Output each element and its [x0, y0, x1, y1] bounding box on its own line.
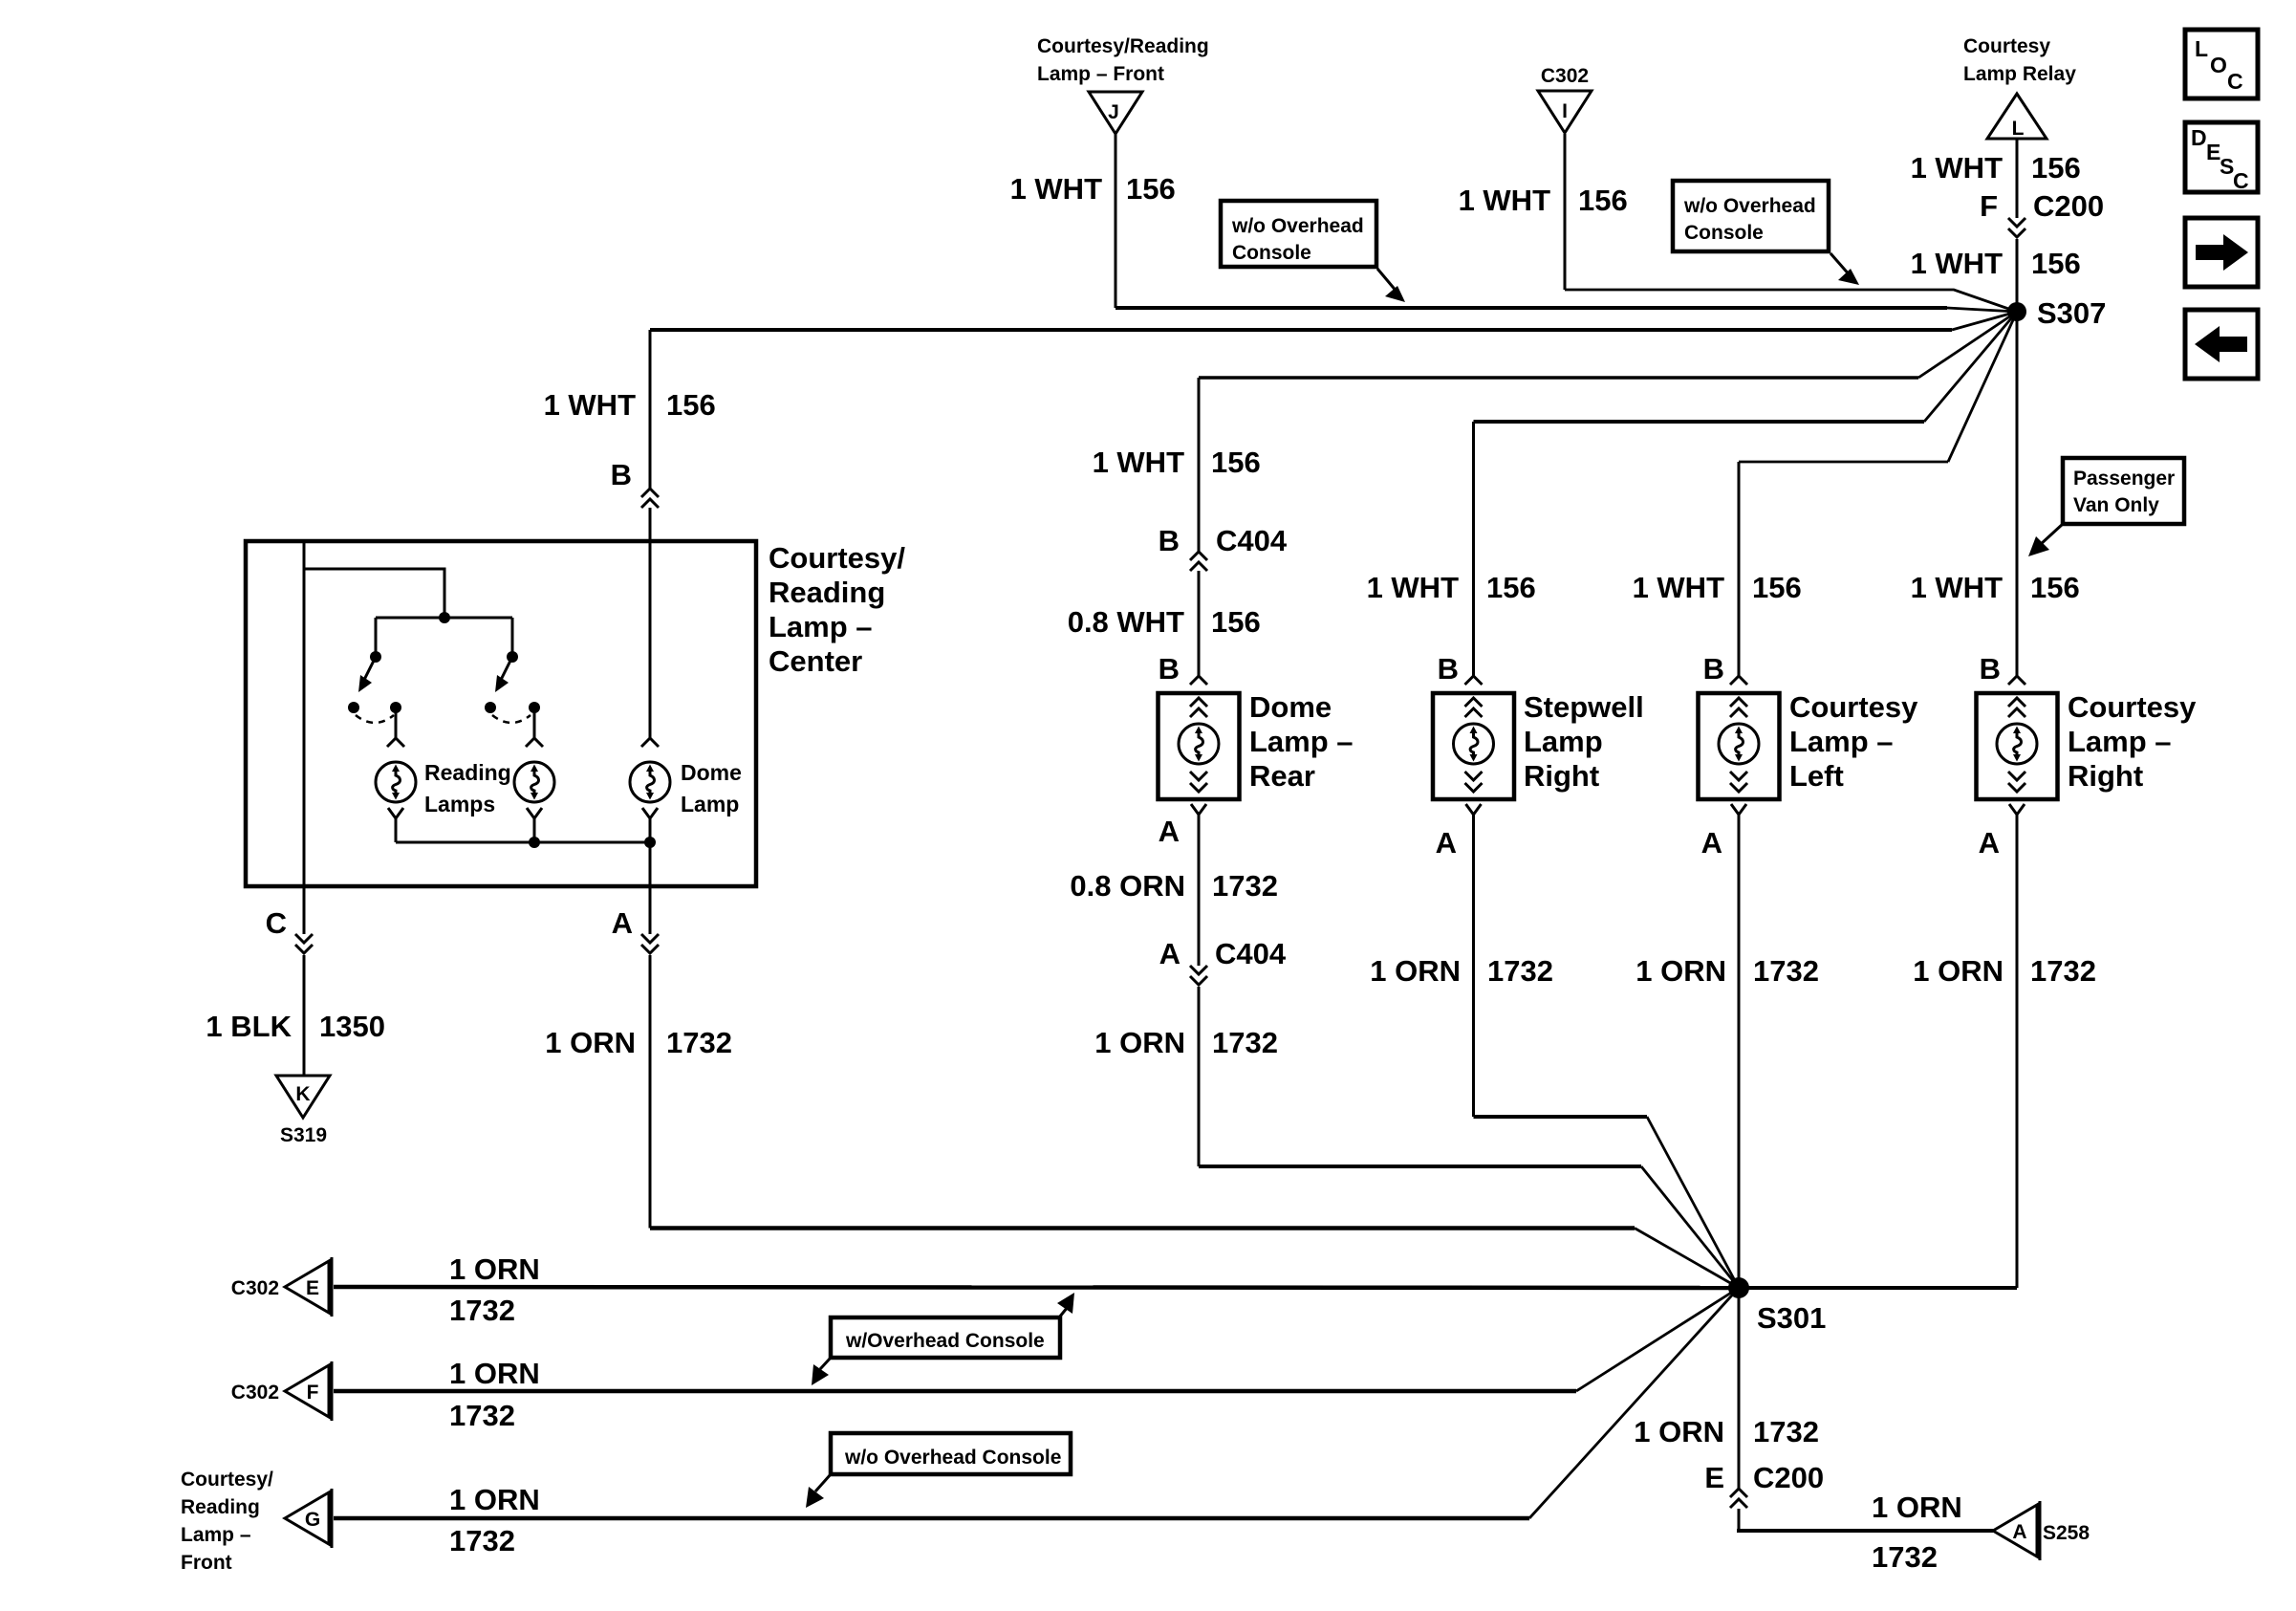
- junction node at dome lamp: [644, 837, 656, 848]
- svg-text:Lamp –: Lamp –: [1249, 725, 1354, 758]
- svg-text:1732: 1732: [666, 1026, 732, 1059]
- svg-text:1 WHT: 1 WHT: [1459, 184, 1551, 217]
- svg-text:156: 156: [2030, 571, 2080, 604]
- svg-text:1 ORN: 1 ORN: [449, 1357, 540, 1390]
- svg-text:D: D: [2191, 125, 2207, 150]
- svg-text:1 ORN: 1 ORN: [1370, 954, 1461, 988]
- svg-text:Console: Console: [1232, 242, 1311, 264]
- callout box w/o Overhead Console (bottom): [831, 1433, 1071, 1474]
- switch 2 (reading lamps): [485, 651, 540, 723]
- arrow from w/o Overhead Console (bottom) to G wire: [806, 1474, 831, 1508]
- svg-text:Dome: Dome: [681, 760, 742, 785]
- callout box w/o Overhead Console (upper right): [1673, 181, 1829, 251]
- svg-text:1 WHT: 1 WHT: [1633, 571, 1725, 604]
- svg-text:1 WHT: 1 WHT: [1911, 151, 2004, 185]
- svg-text:156: 156: [1752, 571, 1802, 604]
- svg-text:1350: 1350: [319, 1010, 385, 1043]
- svg-text:B: B: [611, 458, 632, 491]
- svg-text:1 ORN: 1 ORN: [1913, 954, 2004, 988]
- labels below courtesy right: A, 1 ORN 1732: [1913, 826, 2096, 988]
- switch feed wire from C line: [304, 569, 444, 618]
- svg-text:Rear: Rear: [1249, 759, 1315, 793]
- label 1 WHT 156 on I wire: [1459, 184, 1628, 217]
- svg-text:156: 156: [1578, 184, 1628, 217]
- dome lamp (center): [630, 541, 670, 886]
- label 1 BLK 1350: [206, 1010, 385, 1043]
- labels on L wire: 1 WHT 156, F C200, 1 WHT 156: [1911, 151, 2105, 280]
- svg-text:G: G: [305, 1509, 320, 1531]
- svg-text:1732: 1732: [1753, 1415, 1819, 1448]
- svg-text:C302: C302: [231, 1382, 279, 1404]
- svg-text:1 ORN: 1 ORN: [1635, 954, 1726, 988]
- svg-text:1 BLK: 1 BLK: [206, 1010, 292, 1043]
- svg-text:1 WHT: 1 WHT: [1367, 571, 1460, 604]
- splice S301: [1728, 1277, 1826, 1335]
- svg-text:1732: 1732: [449, 1524, 515, 1557]
- svg-text:Front: Front: [181, 1552, 232, 1574]
- svg-text:Lamp –: Lamp –: [1789, 725, 1894, 758]
- svg-text:C404: C404: [1216, 524, 1288, 557]
- labels on dome rear feed: 1 WHT 156, B C404, 0.8 WHT 156, B: [1068, 446, 1288, 686]
- svg-text:0.8 ORN: 0.8 ORN: [1070, 869, 1185, 903]
- svg-text:1 ORN: 1 ORN: [449, 1252, 540, 1286]
- callout box w/o Overhead Console (upper left): [1221, 201, 1376, 267]
- svg-text:A: A: [1159, 815, 1180, 848]
- svg-text:Courtesy: Courtesy: [2068, 690, 2197, 724]
- svg-text:1 ORN: 1 ORN: [1634, 1415, 1724, 1448]
- svg-text:Reading: Reading: [181, 1496, 260, 1518]
- svg-text:Courtesy: Courtesy: [1789, 690, 1918, 724]
- svg-text:1732: 1732: [1753, 954, 1819, 988]
- svg-text:C302: C302: [231, 1277, 279, 1299]
- svg-text:B: B: [1159, 524, 1180, 557]
- svg-text:w/o Overhead: w/o Overhead: [1683, 195, 1816, 217]
- svg-text:C302: C302: [1541, 65, 1589, 87]
- svg-text:w/o Overhead Console: w/o Overhead Console: [844, 1447, 1061, 1469]
- svg-text:156: 156: [1211, 605, 1261, 639]
- arrow from Passenger Van Only: [2028, 524, 2063, 556]
- reading lamp 2: [514, 708, 554, 842]
- svg-text:B: B: [1438, 652, 1459, 686]
- svg-text:C200: C200: [1753, 1461, 1824, 1494]
- svg-text:1732: 1732: [2030, 954, 2096, 988]
- svg-text:C: C: [266, 906, 287, 940]
- connector A S258: [1993, 1501, 2090, 1560]
- wire S307 to center lamp B feed: [1952, 312, 2017, 330]
- svg-text:156: 156: [1486, 571, 1536, 604]
- svg-text:Reading: Reading: [424, 760, 511, 785]
- svg-text:Lamp –: Lamp –: [769, 610, 873, 643]
- DESC box: [2185, 122, 2258, 193]
- svg-text:S319: S319: [280, 1124, 327, 1146]
- svg-text:Lamp: Lamp: [681, 792, 739, 816]
- connector E C302: [231, 1257, 332, 1317]
- reading lamp 1: [376, 708, 416, 842]
- svg-text:A: A: [1159, 937, 1180, 970]
- svg-text:Van Only: Van Only: [2073, 494, 2159, 516]
- svg-text:1 WHT: 1 WHT: [544, 388, 637, 422]
- label Dome Lamp: [681, 760, 742, 816]
- svg-text:Lamp Relay: Lamp Relay: [1963, 63, 2076, 85]
- wire F to S301: [334, 1389, 1576, 1394]
- svg-text:C200: C200: [2033, 189, 2104, 223]
- svg-text:1732: 1732: [449, 1399, 515, 1432]
- wire I to S307: [1564, 134, 1567, 290]
- arrow from w/o Overhead Console (upper right): [1830, 253, 1859, 285]
- back arrow box: [2185, 310, 2258, 379]
- wire J to S307: [1115, 134, 1117, 308]
- label 1 WHT 156 on J wire: [1010, 172, 1176, 206]
- svg-text:1 ORN: 1 ORN: [1872, 1491, 1962, 1524]
- LOC box: [2185, 30, 2258, 98]
- connector F C302: [231, 1361, 332, 1421]
- callout box w/Overhead Console: [831, 1317, 1060, 1358]
- callout box Passenger Van Only: [2063, 458, 2184, 524]
- svg-text:O: O: [2210, 53, 2227, 77]
- svg-text:S258: S258: [2043, 1522, 2090, 1544]
- svg-text:1 ORN: 1 ORN: [449, 1483, 540, 1516]
- svg-text:1 ORN: 1 ORN: [1094, 1026, 1185, 1059]
- wire S307 to stepwell lamp: [1465, 312, 2018, 685]
- wire courtesy lamp left to S301: [1731, 804, 1746, 1288]
- label 1 WHT 156 and pin B on center feed: [544, 388, 716, 491]
- svg-text:1732: 1732: [1212, 1026, 1278, 1059]
- wire S301 down to C200 E and S258: [1730, 1288, 1993, 1531]
- svg-text:A: A: [1701, 826, 1722, 860]
- label 1 ORN 1732 on S258 wire: [1872, 1491, 1962, 1574]
- svg-text:Lamp: Lamp: [1524, 725, 1603, 758]
- svg-text:156: 156: [666, 388, 716, 422]
- label Reading Lamps: [424, 760, 511, 816]
- svg-text:w/Overhead Console: w/Overhead Console: [845, 1330, 1045, 1352]
- wire courtesy lamp right to S301: [1739, 804, 2025, 1288]
- svg-text:156: 156: [1211, 446, 1261, 479]
- svg-text:Lamp –: Lamp –: [2068, 725, 2172, 758]
- svg-text:Lamps: Lamps: [424, 792, 495, 816]
- svg-text:Right: Right: [2068, 759, 2143, 793]
- forward arrow box: [2185, 218, 2258, 287]
- labels below courtesy left: A, 1 ORN 1732: [1635, 826, 1819, 988]
- svg-text:Dome: Dome: [1249, 690, 1332, 724]
- svg-text:Reading: Reading: [769, 576, 885, 609]
- label 1 ORN 1732 on G wire: [449, 1483, 540, 1557]
- Courtesy/Reading Lamp - Center box: [246, 541, 905, 886]
- svg-text:B: B: [1159, 652, 1180, 686]
- connector L (Courtesy Lamp Relay): [1963, 35, 2076, 140]
- Courtesy Lamp - Left: [1699, 690, 1919, 799]
- svg-text:1 WHT: 1 WHT: [1093, 446, 1185, 479]
- svg-text:K: K: [295, 1083, 310, 1105]
- svg-text:Left: Left: [1789, 759, 1844, 793]
- connector I (C302): [1538, 65, 1592, 133]
- svg-text:1 WHT: 1 WHT: [1911, 571, 2004, 604]
- svg-text:S301: S301: [1757, 1301, 1826, 1335]
- svg-text:0.8 WHT: 0.8 WHT: [1068, 605, 1184, 639]
- arrow from w/o Overhead Console (upper left): [1377, 269, 1405, 302]
- label 1 ORN 1732 on E wire: [449, 1252, 540, 1327]
- svg-text:1 WHT: 1 WHT: [1010, 172, 1103, 206]
- svg-text:J: J: [1108, 101, 1119, 123]
- svg-text:1732: 1732: [1487, 954, 1553, 988]
- wire C to S319: [295, 886, 313, 1075]
- svg-text:A: A: [1436, 826, 1457, 860]
- svg-text:L: L: [2012, 118, 2025, 140]
- svg-text:A: A: [612, 906, 633, 940]
- svg-text:156: 156: [2031, 151, 2081, 185]
- svg-text:Courtesy/: Courtesy/: [181, 1469, 273, 1491]
- svg-text:Courtesy: Courtesy: [1963, 35, 2050, 57]
- feed junction node: [439, 612, 450, 623]
- svg-text:1732: 1732: [1872, 1540, 1938, 1574]
- label 1 ORN 1732 (center A wire): [545, 1026, 732, 1059]
- svg-text:S307: S307: [2037, 296, 2106, 330]
- wire S307 down to courtesy lamp right: [2008, 312, 2025, 685]
- Stepwell Lamp Right: [1433, 690, 1644, 799]
- ground wire C inside box: [303, 541, 306, 886]
- collector wire inside center box: [396, 841, 650, 844]
- wire stepwell lamp to S301: [1466, 804, 1740, 1288]
- svg-text:1 ORN: 1 ORN: [545, 1026, 636, 1059]
- wire L to S307 with C200 connector: [2016, 139, 2019, 218]
- wire E to S301: [334, 1287, 1739, 1288]
- svg-text:E: E: [306, 1277, 319, 1299]
- svg-text:1732: 1732: [1212, 869, 1278, 903]
- labels on courtesy left feed: [1633, 571, 1802, 686]
- svg-text:F: F: [1980, 189, 1998, 223]
- svg-text:L: L: [2195, 36, 2208, 61]
- arrow up from w/Overhead Console to E wire: [1057, 1293, 1074, 1317]
- svg-text:Console: Console: [1684, 222, 1764, 244]
- wire A from center box to S301: [641, 886, 1739, 1288]
- svg-text:Lamp – Front: Lamp – Front: [1037, 63, 1164, 85]
- svg-text:B: B: [1703, 652, 1724, 686]
- connector G (Courtesy/Reading Lamp - Front): [181, 1469, 332, 1574]
- wire S307 to dome lamp rear: [1190, 312, 2017, 685]
- wire dome lamp rear to S301: [1190, 804, 1739, 1288]
- labels on courtesy right feed: [1911, 571, 2080, 686]
- svg-text:Center: Center: [769, 644, 862, 678]
- labels below dome rear: A, 0.8 ORN 1732, A C404, 1 ORN 1732: [1070, 815, 1286, 1059]
- svg-text:A: A: [1979, 826, 2000, 860]
- svg-text:156: 156: [1126, 172, 1176, 206]
- svg-text:1732: 1732: [449, 1294, 515, 1327]
- svg-text:Courtesy/Reading: Courtesy/Reading: [1037, 35, 1209, 57]
- wire G to S301: [334, 1516, 1529, 1521]
- svg-text:F: F: [307, 1382, 319, 1404]
- svg-text:Lamp –: Lamp –: [181, 1524, 251, 1546]
- svg-text:Courtesy/: Courtesy/: [769, 541, 905, 575]
- svg-text:w/o Overhead: w/o Overhead: [1231, 215, 1364, 237]
- Courtesy Lamp - Right: [1977, 690, 2198, 799]
- svg-text:B: B: [1980, 652, 2001, 686]
- junction node at lamp 2: [529, 837, 540, 848]
- arrow down from w/Overhead Console to F wire: [812, 1358, 831, 1385]
- svg-text:A: A: [2012, 1521, 2026, 1543]
- connector J (Courtesy/Reading Lamp - Front): [1037, 35, 1209, 134]
- labels 1 ORN 1732 and E C200 below S301: [1634, 1415, 1824, 1494]
- svg-text:C404: C404: [1215, 937, 1287, 970]
- wire S307 to courtesy lamp left: [1730, 312, 2017, 685]
- svg-text:Right: Right: [1524, 759, 1599, 793]
- svg-text:156: 156: [2031, 247, 2081, 280]
- svg-text:Stepwell: Stepwell: [1524, 690, 1644, 724]
- svg-text:C: C: [2233, 168, 2249, 193]
- svg-text:E: E: [1704, 1461, 1724, 1494]
- svg-text:Passenger: Passenger: [2073, 468, 2175, 490]
- connector K to S319: [276, 1076, 330, 1146]
- labels below stepwell: A, 1 ORN 1732: [1370, 826, 1553, 988]
- labels on stepwell feed: [1367, 571, 1536, 686]
- svg-text:I: I: [1562, 100, 1568, 122]
- label 1 ORN 1732 on F wire: [449, 1357, 540, 1432]
- svg-text:C: C: [2227, 69, 2243, 94]
- splice S307: [2007, 296, 2106, 330]
- switch 1 (reading lamps): [348, 651, 401, 723]
- Dome Lamp - Rear: [1159, 690, 1354, 799]
- svg-text:1 WHT: 1 WHT: [1911, 247, 2004, 280]
